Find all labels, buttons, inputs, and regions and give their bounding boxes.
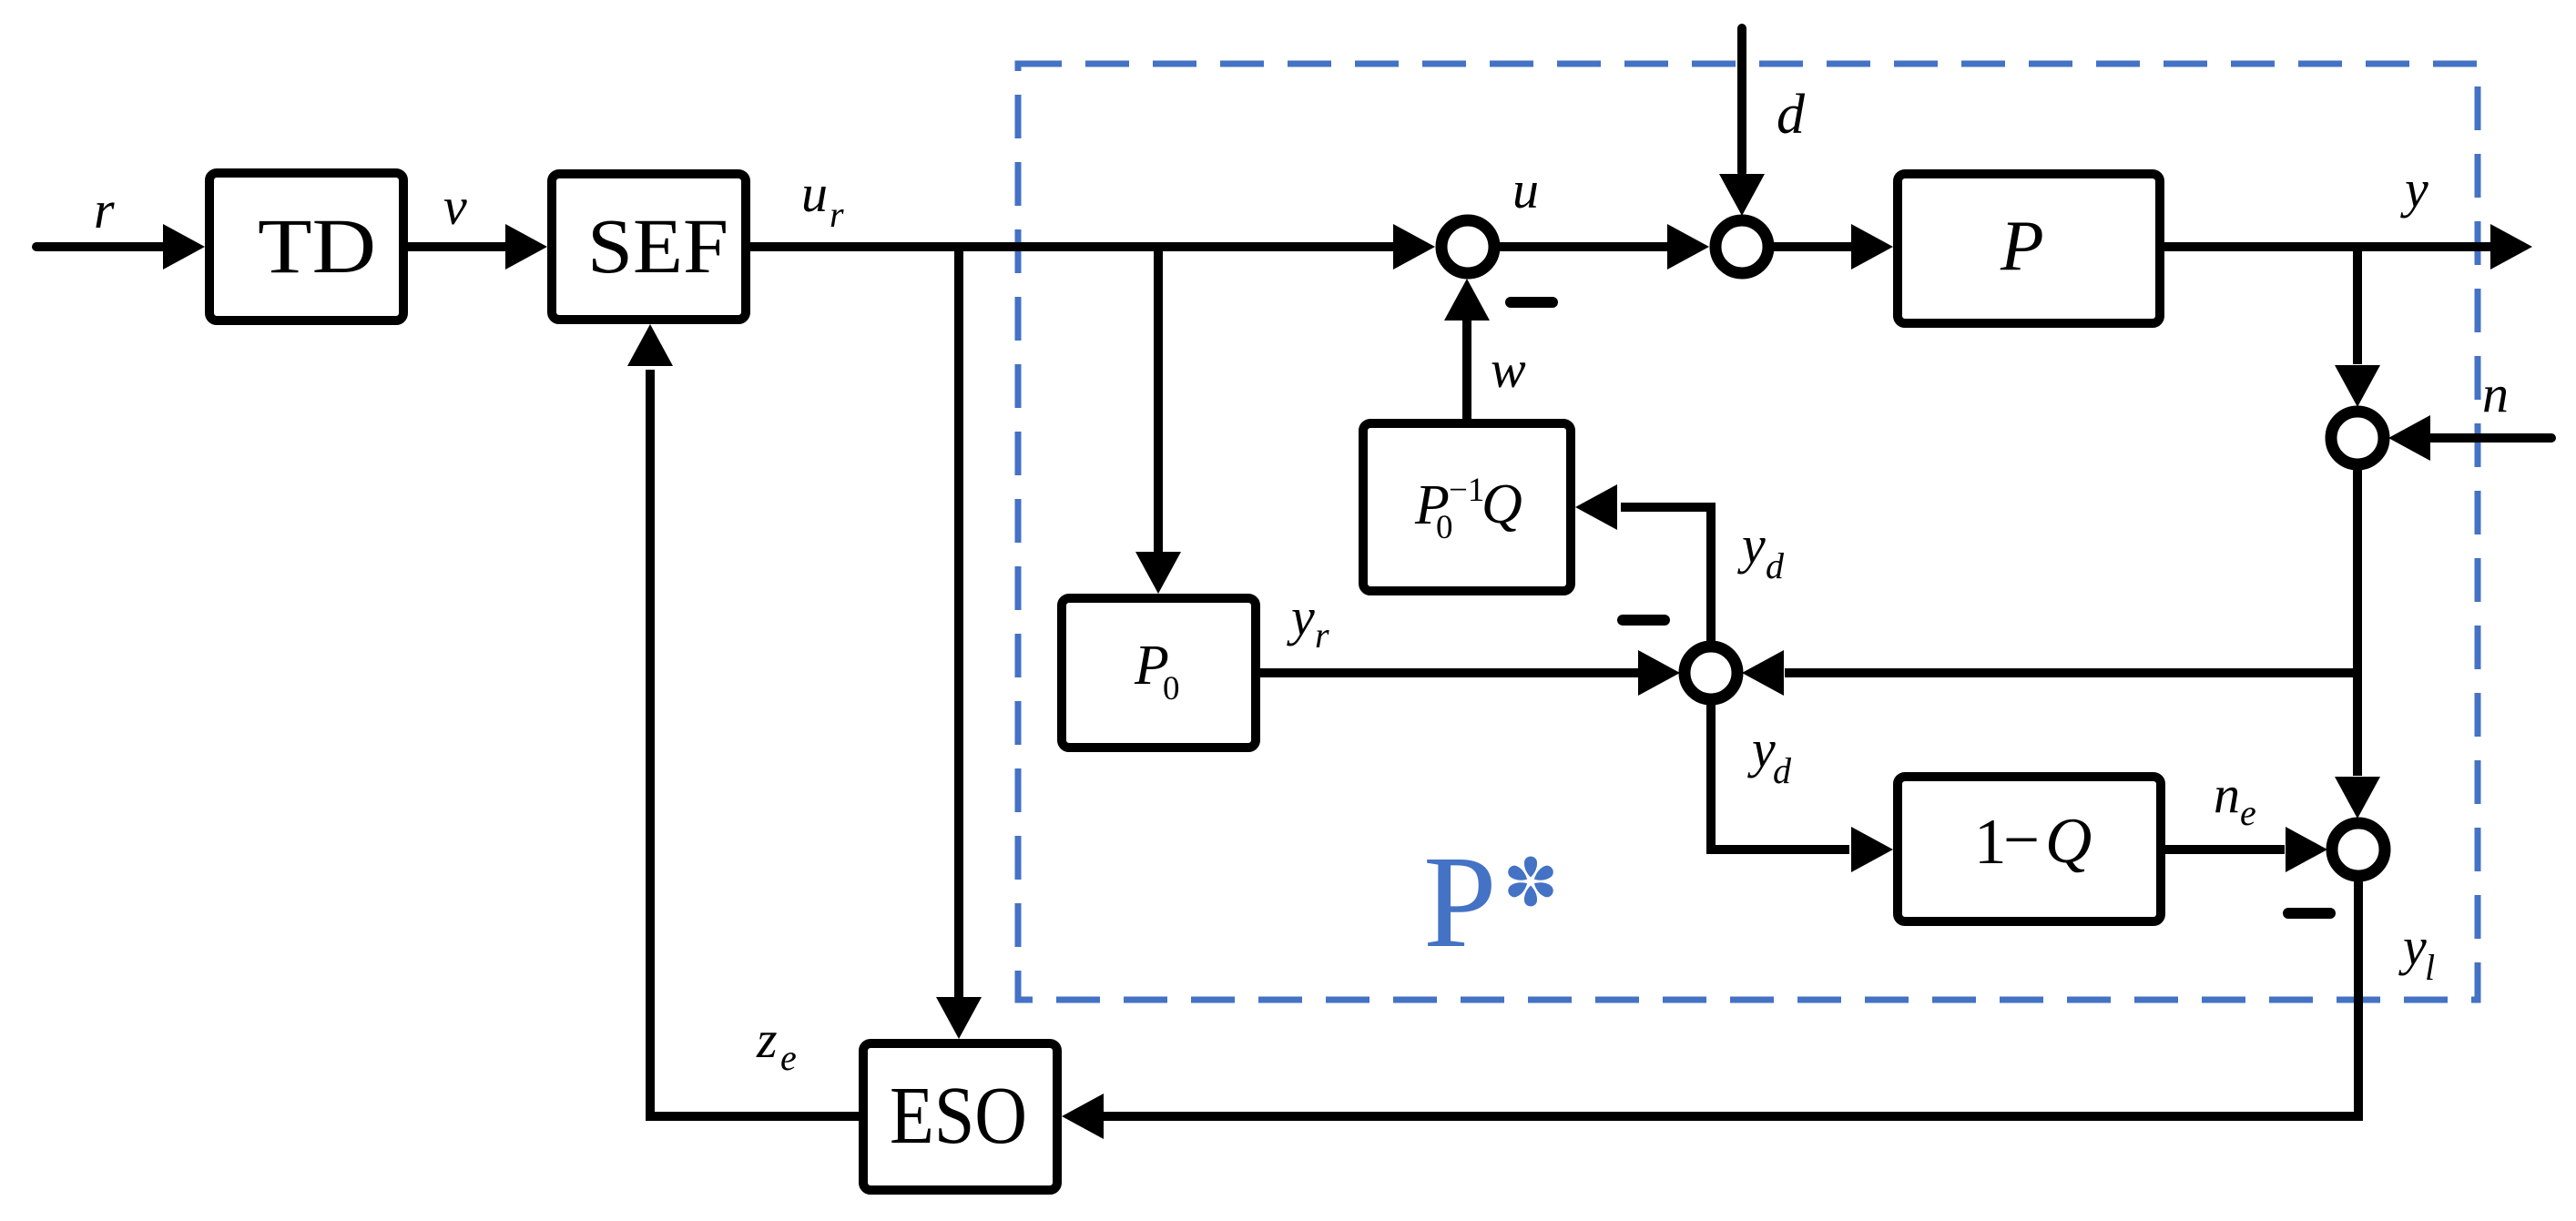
- arrowhead d into J2 top: [1719, 174, 1765, 216]
- arrowhead into J2: [1667, 224, 1709, 270]
- wire y_r: P0 to J4: [1260, 668, 1639, 677]
- svg-text:y: y: [1737, 515, 1766, 575]
- wire r input: [36, 242, 164, 251]
- wire y output: [2164, 242, 2490, 251]
- minus sign at J5: [2288, 908, 2330, 919]
- wire n input: [2431, 433, 2551, 443]
- wire u_r: SEF to junction J1: [750, 242, 1397, 251]
- block 1-Q: [1898, 777, 2161, 921]
- wire J1 to J2: [1499, 242, 1668, 251]
- wire d input: [1737, 28, 1746, 172]
- arrowhead into J1: [1393, 224, 1435, 270]
- junction J1 summing circle u: [1441, 220, 1494, 273]
- arrowhead into J5 top: [2335, 777, 2380, 819]
- wire z_e: ESO left up to SEF bottom: [650, 370, 859, 1116]
- svg-text:n: n: [2214, 765, 2240, 824]
- svg-text:z: z: [756, 1010, 778, 1069]
- junction J3 summing circle n: [2331, 412, 2384, 464]
- arrowhead n into J3 right: [2388, 415, 2430, 461]
- block P: [1898, 174, 2160, 323]
- block P0: [1062, 598, 1256, 748]
- svg-text:P: P: [2000, 206, 2044, 285]
- svg-text:Q: Q: [1481, 473, 1522, 535]
- wire y_d up from J4 to P0^-1Q: [1621, 507, 1711, 641]
- svg-text:e: e: [780, 1037, 797, 1078]
- svg-text:u: u: [801, 164, 828, 223]
- arrowhead into ESO top: [936, 997, 982, 1039]
- wire y_l: J5 down and left to ESO: [1104, 881, 2358, 1116]
- wire v: TD to SEF: [408, 242, 506, 251]
- node P* asterisk: [1506, 856, 1556, 906]
- svg-text:e: e: [2240, 792, 2256, 833]
- svg-text:l: l: [2425, 947, 2435, 988]
- wire T at 739 to J4 right: [1785, 668, 2357, 677]
- junction J2 summing circle d: [1716, 220, 1768, 273]
- arrowhead into SEF bottom: [627, 324, 673, 366]
- wire n_e: 1-Q to J5: [2165, 845, 2285, 854]
- svg-text:r: r: [94, 180, 115, 239]
- svg-text:r: r: [1315, 615, 1329, 656]
- arrowhead y output: [2490, 224, 2532, 270]
- arrowhead into ESO right: [1062, 1094, 1104, 1139]
- svg-text:d: d: [1766, 545, 1785, 586]
- svg-text:v: v: [443, 177, 467, 236]
- wire J3 down through T to J5: [2353, 470, 2362, 776]
- block TD: [209, 173, 403, 321]
- junction J5 summing circle: [2332, 823, 2385, 876]
- arrowhead into J4 left: [1638, 650, 1680, 696]
- svg-text:u: u: [1512, 160, 1539, 219]
- arrowhead into J3 top: [2335, 365, 2380, 407]
- wire branch down to ESO: [954, 242, 963, 997]
- block SEF: [552, 174, 746, 320]
- junction J4 summing circle: [1685, 646, 1737, 699]
- svg-text:−: −: [2003, 805, 2040, 876]
- arrowhead into J5 left: [2286, 827, 2327, 872]
- svg-text:d: d: [1777, 84, 1806, 146]
- block P0^-1Q: [1363, 423, 1571, 591]
- svg-text:y: y: [2400, 159, 2428, 219]
- svg-text:Q: Q: [2045, 806, 2092, 877]
- svg-text:n: n: [2482, 364, 2509, 423]
- svg-text:d: d: [1773, 750, 1792, 791]
- block ESO: [863, 1043, 1057, 1190]
- dashed box P* boundary: [1018, 64, 2478, 1000]
- svg-text:w: w: [1491, 340, 1526, 399]
- wire branch down to J3: [2353, 242, 2362, 364]
- svg-text:ESO: ESO: [890, 1071, 1027, 1161]
- wire w: P0^-1Q top to J1 bottom: [1462, 320, 1471, 419]
- svg-text:SEF: SEF: [587, 202, 728, 290]
- arrowhead w into J1 bottom: [1444, 279, 1490, 321]
- svg-text:TD: TD: [258, 202, 376, 290]
- wire branch down to P0: [1154, 242, 1163, 552]
- minus sign at J1: [1511, 297, 1553, 308]
- arrowhead into P0^-1Q right: [1575, 484, 1617, 530]
- svg-text:−1: −1: [1449, 472, 1484, 509]
- svg-text:0: 0: [1163, 670, 1180, 707]
- wire J2 to P: [1773, 242, 1851, 251]
- minus sign at J4: [1623, 615, 1665, 626]
- arrowhead into P: [1851, 224, 1893, 270]
- arrowhead into P0 top: [1135, 552, 1181, 594]
- svg-text:y: y: [1747, 719, 1776, 778]
- wire y_d down from J4 to 1-Q: [1711, 705, 1849, 850]
- arrowhead into J4 right: [1742, 650, 1784, 696]
- svg-text:1: 1: [1974, 807, 2007, 878]
- svg-text:0: 0: [1436, 509, 1453, 546]
- svg-text:P: P: [1423, 829, 1497, 975]
- svg-text:y: y: [2398, 917, 2427, 976]
- svg-text:y: y: [1287, 587, 1315, 646]
- arrowhead into 1-Q left: [1851, 827, 1893, 872]
- arrowhead into SEF: [505, 224, 547, 270]
- arrowhead into TD: [163, 224, 205, 270]
- svg-text:r: r: [830, 194, 844, 235]
